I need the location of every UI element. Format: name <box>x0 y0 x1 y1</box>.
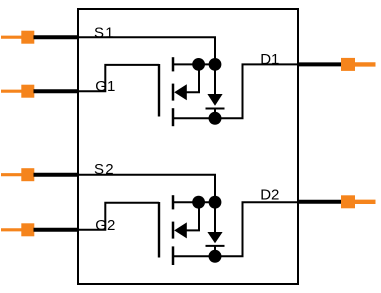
svg-text:G2: G2 <box>95 217 115 234</box>
svg-text:S1: S1 <box>94 24 115 41</box>
svg-text:S2: S2 <box>94 161 115 178</box>
svg-text:G1: G1 <box>95 78 115 95</box>
svg-text:D2: D2 <box>260 187 279 204</box>
svg-text:D1: D1 <box>260 51 279 68</box>
